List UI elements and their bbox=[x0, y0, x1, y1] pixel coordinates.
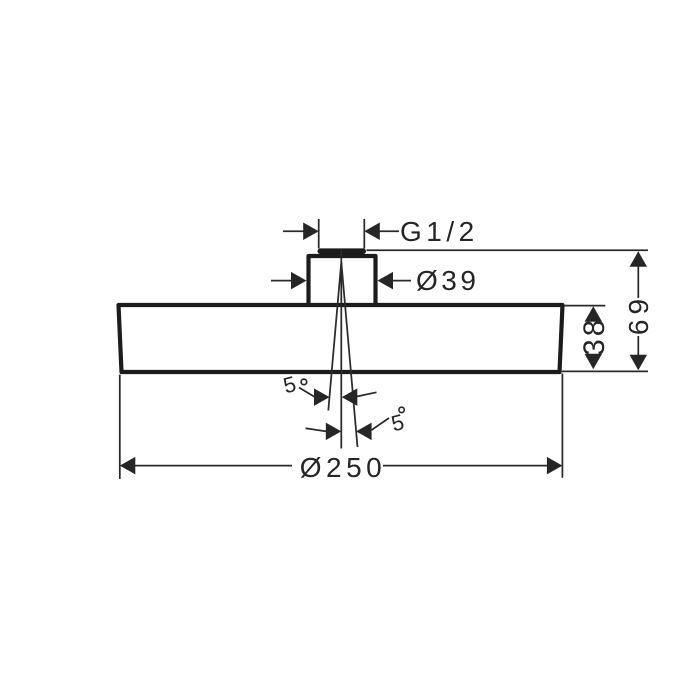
right 5deg spray line bbox=[341, 262, 357, 447]
G1/2 label bbox=[400, 216, 479, 247]
D250 extension line left bbox=[119, 375, 121, 480]
G1/2 dimension arrow left bbox=[283, 222, 319, 240]
left 5deg spray line bbox=[328, 262, 341, 411]
center line bbox=[340, 250, 342, 449]
D39 label bbox=[416, 265, 479, 296]
shower head plate outline bbox=[119, 305, 563, 372]
69 top extension line bbox=[367, 249, 649, 251]
connector lip bbox=[318, 248, 367, 254]
svg-text:G1/2: G1/2 bbox=[400, 216, 479, 247]
svg-text:Ø39: Ø39 bbox=[416, 265, 479, 296]
38 extension line bbox=[564, 305, 606, 307]
bottom extension line bbox=[560, 370, 648, 372]
upper 5deg leader and arrows bbox=[299, 388, 377, 406]
svg-text:Ø250: Ø250 bbox=[300, 452, 387, 483]
69 dimension line and arrows bbox=[630, 251, 648, 370]
D250 dimension arrow right bbox=[383, 457, 562, 475]
D250 label bbox=[300, 452, 387, 483]
connector block bbox=[309, 256, 376, 305]
svg-text:38: 38 bbox=[578, 317, 611, 356]
38 label bbox=[578, 317, 611, 356]
38 dimension arrows bbox=[585, 306, 603, 369]
lower 5deg arrows and leader bbox=[306, 418, 390, 440]
D250 extension line right bbox=[561, 374, 563, 478]
svg-text:69: 69 bbox=[623, 294, 654, 335]
upper 5deg label bbox=[281, 371, 307, 398]
G1/2 dimension arrow right bbox=[364, 222, 399, 240]
D39 dimension arrow left bbox=[271, 272, 307, 290]
69 label bbox=[623, 294, 654, 335]
D39 dimension arrow right bbox=[378, 272, 412, 290]
G1/2 extension line right bbox=[363, 219, 365, 249]
G1/2 extension line left bbox=[318, 219, 320, 249]
D250 dimension arrow left bbox=[120, 457, 292, 475]
lower 5deg label bbox=[389, 407, 407, 436]
